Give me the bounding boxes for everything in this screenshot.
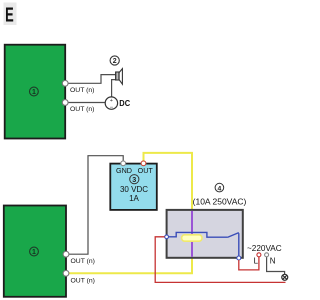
svg-text:E: E — [5, 4, 14, 27]
svg-text:1: 1 — [32, 89, 36, 96]
svg-text:OUT (n): OUT (n) — [70, 87, 94, 94]
svg-text:3: 3 — [132, 175, 136, 184]
svg-text:1A: 1A — [129, 194, 139, 203]
svg-text:1: 1 — [32, 249, 36, 256]
svg-text:−: − — [110, 105, 114, 111]
svg-text:~220VAC: ~220VAC — [247, 244, 282, 253]
svg-text:(10A 250VAC): (10A 250VAC) — [193, 197, 247, 207]
svg-text:+: + — [110, 98, 113, 104]
svg-text:30 VDC: 30 VDC — [120, 185, 148, 194]
svg-text:GND: GND — [116, 166, 132, 175]
svg-text:L: L — [254, 257, 259, 266]
svg-text:OUT (n): OUT (n) — [70, 106, 94, 113]
svg-text:DC: DC — [119, 99, 130, 108]
svg-text:4: 4 — [218, 185, 222, 192]
svg-text:OUT (n): OUT (n) — [71, 278, 95, 285]
svg-text:OUT (n): OUT (n) — [71, 258, 95, 265]
svg-text:N: N — [270, 257, 276, 266]
svg-text:OUT: OUT — [138, 166, 154, 175]
svg-text:2: 2 — [113, 58, 117, 65]
